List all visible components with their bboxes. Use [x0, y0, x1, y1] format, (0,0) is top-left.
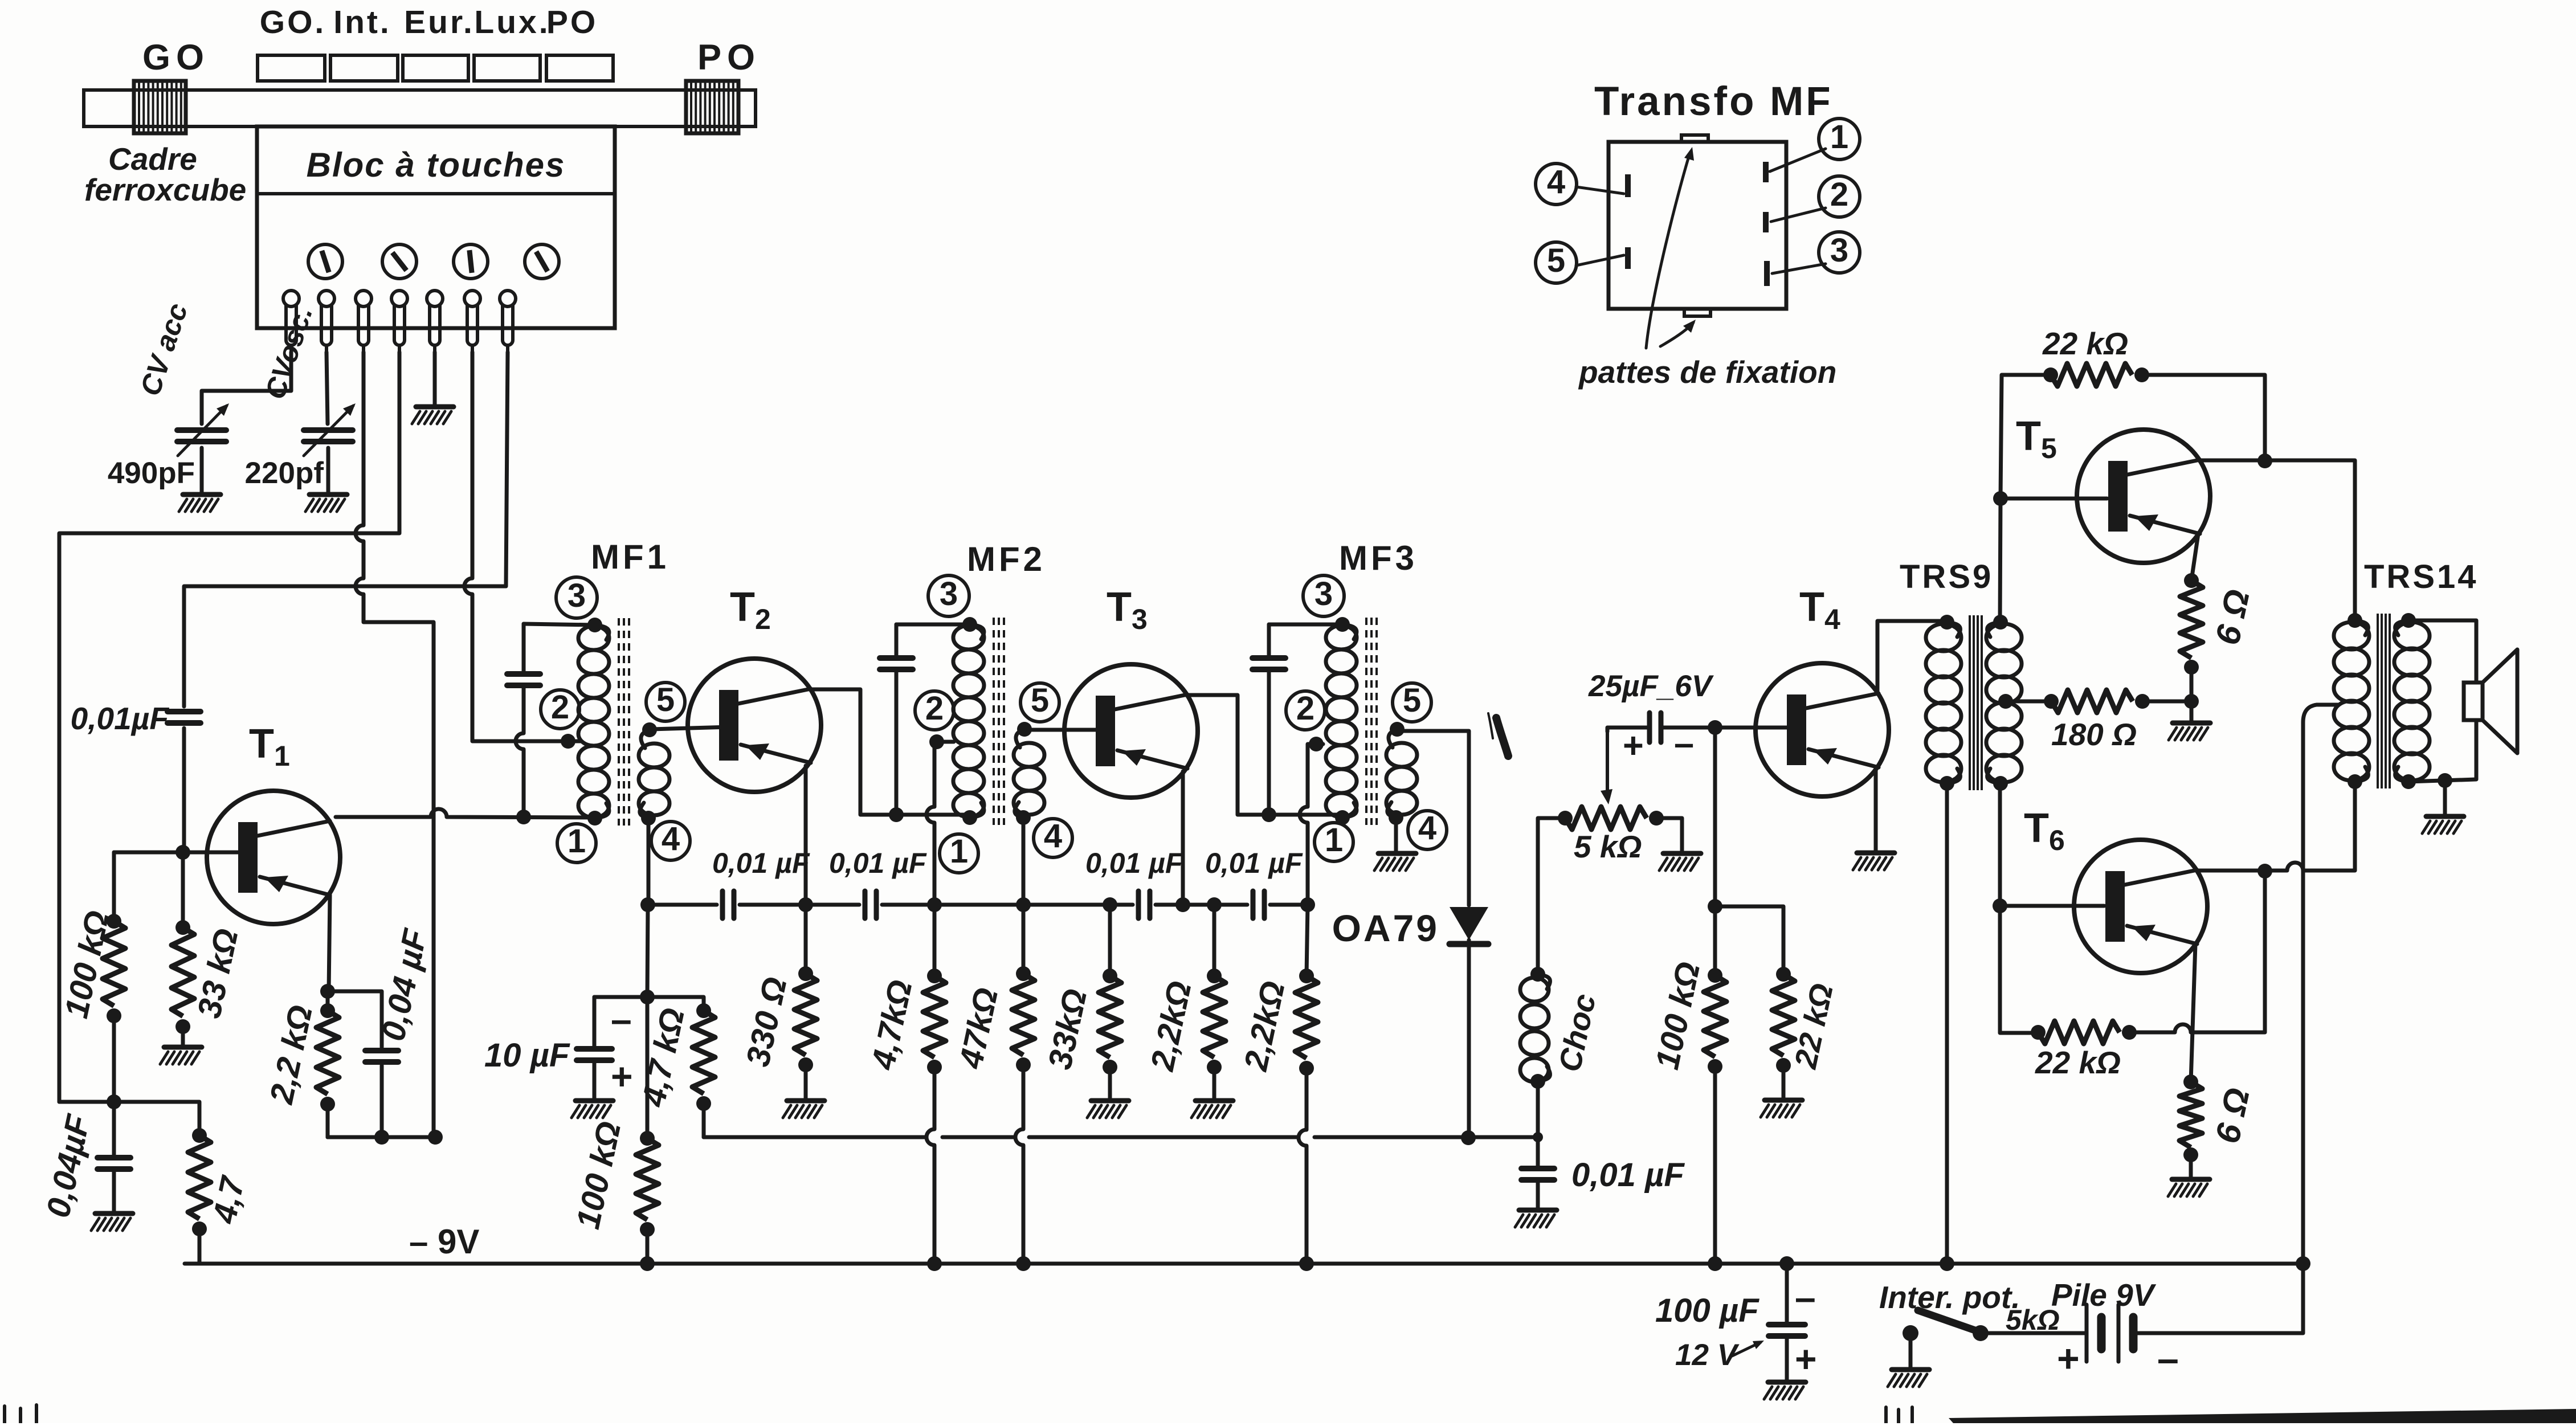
wire -9V rail	[185, 1262, 2303, 1266]
wire T1 collector to MF1	[336, 809, 595, 818]
wire T3 collector to MF3	[1186, 695, 1340, 815]
svg-text:22 kΩ: 22 kΩ	[2042, 326, 2128, 361]
svg-text:MF1: MF1	[591, 538, 669, 576]
svg-text:T1: T1	[249, 721, 290, 772]
potentiometer 5kohm	[1558, 807, 1664, 830]
svg-text:100 kΩ: 100 kΩ	[569, 1118, 628, 1232]
capacitor MF3 tuning	[1252, 658, 1285, 669]
svg-text:0,01 µF: 0,01 µF	[1205, 847, 1303, 879]
bloc terminal pin 1	[283, 291, 299, 353]
wire MF3 pin3 to cap	[1269, 623, 1342, 627]
junction rail at 47k	[1016, 1256, 1031, 1271]
variable capacitor CVacc 490pF	[177, 403, 229, 456]
junction MF1 tap wire	[561, 734, 575, 749]
svg-text:6 Ω: 6 Ω	[2208, 1085, 2257, 1147]
wire T3 emitter	[1181, 771, 1185, 905]
wire 10uF to ground	[593, 1063, 597, 1100]
ground (speaker)	[2422, 816, 2464, 833]
svg-text:5: 5	[1403, 682, 1421, 719]
wire T2 emitter	[804, 766, 808, 905]
key button PO	[546, 55, 613, 81]
junction osc feedback at emitter bus	[428, 1130, 443, 1145]
junction AGC node	[107, 1094, 121, 1109]
wire pin7 to wire2	[184, 352, 508, 706]
svg-text:47kΩ: 47kΩ	[952, 984, 1005, 1072]
circled 1 (MF2)	[940, 833, 978, 873]
resistor 33kohm (T1 base lower)	[172, 920, 194, 1034]
svg-text:PO: PO	[697, 38, 761, 77]
Transfo MF pin 3	[1764, 261, 1770, 286]
wire T5 emitter	[2191, 534, 2198, 581]
Transfo MF pin 2	[1763, 212, 1769, 232]
wire MF3 cap line	[1267, 624, 1271, 815]
junction row at 2,2k a	[1207, 897, 1222, 912]
svg-text:CVosc.: CVosc.	[259, 303, 319, 403]
wire 4,7k to AGC line	[702, 1104, 706, 1137]
key button Eur	[403, 55, 468, 81]
capacitor 0,01uF (detector filter)	[1521, 1168, 1554, 1180]
wire 33k to base	[181, 852, 185, 927]
wire det cap	[1536, 1137, 1540, 1209]
resistor 22kohm (T6 feedback)	[2031, 1021, 2137, 1044]
coil PO on ferrite rod	[686, 81, 738, 133]
svg-text:Inter. pot.: Inter. pot.	[1879, 1280, 2020, 1315]
ground (6ohm T5)	[2169, 723, 2210, 740]
wire base to 100k	[112, 852, 116, 921]
wire T2 emitter to 330	[804, 905, 808, 974]
key button Int	[330, 55, 398, 81]
circled 2 (MF3)	[1286, 690, 1325, 730]
transistor T4	[1756, 663, 1889, 796]
wire choc top	[1538, 818, 1565, 974]
junction row at MF2 tap	[927, 897, 942, 912]
junction T5 collector node	[2257, 453, 2272, 468]
svg-text:2: 2	[551, 689, 569, 726]
ground (33k T3)	[1087, 1101, 1129, 1118]
wire 100uF top	[1785, 1264, 1789, 1323]
wire T1 emitter	[329, 895, 330, 991]
wire MF1 pin4 to node A	[647, 905, 648, 997]
resistor 100kohm (T1 base upper)	[103, 914, 125, 1023]
wire node to ground	[2190, 701, 2194, 722]
ferrite rod antenna bar	[84, 90, 756, 126]
wire 6ohm T6 ground	[2189, 1155, 2193, 1178]
ground (pin5)	[412, 407, 454, 424]
svg-text:4: 4	[1418, 810, 1436, 847]
svg-text:22 kΩ: 22 kΩ	[1787, 980, 1840, 1072]
ground (100uF)	[1764, 1382, 1806, 1399]
capacitor 0,04uF (AGC filter)	[97, 1158, 130, 1169]
circled 2 (MF1)	[541, 689, 579, 729]
transistor T2	[688, 659, 821, 792]
arrow to bottom tab	[1660, 320, 1696, 346]
svg-text:4: 4	[662, 820, 680, 857]
scan marks bottom middle	[1886, 1407, 1912, 1423]
trimmer screw 3 in bloc	[454, 244, 488, 279]
junction MF3 cap at pin1 wire	[1262, 807, 1276, 822]
wire pin3 to emitter node (osc feedback)	[356, 352, 434, 1136]
circled 1 (Transfo MF)	[1819, 119, 1860, 160]
capacitor 25uF 6V	[1650, 713, 1661, 742]
svg-text:22 kΩ: 22 kΩ	[2035, 1045, 2121, 1080]
transistor T5	[2077, 430, 2210, 563]
svg-text:4,7 kΩ: 4,7 kΩ	[635, 1005, 692, 1110]
junction rail at 100k bias	[640, 1256, 655, 1271]
svg-text:TRS9: TRS9	[1900, 558, 1993, 595]
wire cap to T1 base junction	[182, 728, 186, 852]
circled 4 (MF2)	[1034, 818, 1072, 857]
wire 0,04uF down	[380, 1065, 384, 1137]
capacitor 0,01uF row 3	[1138, 891, 1150, 918]
wire T2 base	[650, 727, 729, 729]
svg-text:1: 1	[950, 833, 968, 870]
ground (CVosc)	[305, 495, 347, 512]
junction MF3 tap	[1309, 737, 1324, 751]
scan marks bottom left	[5, 1405, 36, 1423]
svg-text:+: +	[1795, 1338, 1817, 1380]
svg-text:GO: GO	[142, 38, 210, 77]
svg-text:4: 4	[1547, 164, 1565, 201]
svg-text:0,01 µF: 0,01 µF	[712, 847, 810, 879]
wire TRS9 secondary bottom	[2000, 783, 2104, 1033]
svg-text:T6: T6	[2024, 806, 2065, 856]
wire 22k to ground	[1782, 1065, 1786, 1099]
wire TRS9 primary bottom to rail	[1945, 783, 1949, 1264]
wire MF3 tap down	[1300, 744, 1323, 905]
junction row at T2 emitter	[798, 897, 813, 912]
junction row at MF1 pin4	[640, 897, 655, 912]
junction rail at 100k T4	[1708, 1256, 1722, 1271]
svg-text:0,01µF: 0,01µF	[71, 701, 170, 736]
svg-text:33kΩ: 33kΩ	[1041, 986, 1094, 1072]
resistor 2,2kohm (T1 emitter)	[316, 1003, 339, 1112]
wire pot right to ground	[1656, 818, 1682, 852]
ground (AGC cap)	[91, 1213, 133, 1231]
junction row at MF2 pin4	[1016, 897, 1031, 912]
circled 4 (MF1)	[651, 820, 690, 860]
svg-text:3: 3	[940, 575, 958, 612]
key button Lux	[474, 55, 540, 81]
bloc terminal pin 3	[356, 291, 372, 353]
capacitor 0,01uF (T1 base input)	[168, 712, 201, 723]
leader line pin2	[1771, 208, 1826, 222]
junction divider mid	[1708, 899, 1722, 914]
svg-text:2: 2	[1830, 176, 1848, 213]
svg-text:–: –	[1795, 1276, 1816, 1318]
svg-text:Bloc à touches: Bloc à touches	[307, 146, 566, 184]
wire T4 divider vertical	[1713, 728, 1717, 975]
wire 100k to rail	[646, 1229, 650, 1264]
resistor 100kohm (bias)	[636, 1131, 659, 1237]
pot wiper arrow	[1601, 732, 1612, 804]
wire MF2 pin3 to cap	[896, 623, 970, 627]
output transformer TRS14	[2334, 613, 2430, 789]
svg-text:2,2kΩ: 2,2kΩ	[1144, 978, 1199, 1074]
wire 22k T6 to collector node	[2129, 871, 2265, 1032]
wire T4 emitter	[1874, 769, 1878, 852]
wire CVacc to ground	[200, 448, 204, 493]
svg-text:ferroxcube: ferroxcube	[84, 172, 246, 207]
svg-text:+: +	[611, 1055, 633, 1097]
resistor 4,7kohm (MF2 tap)	[923, 969, 946, 1074]
svg-text:220pf: 220pf	[245, 456, 324, 490]
resistor 180ohm	[2044, 690, 2150, 713]
svg-text:OA79: OA79	[1332, 907, 1439, 949]
junction choc/cap/AGC	[1533, 1132, 1543, 1142]
svg-text:3: 3	[1314, 575, 1333, 612]
wire 2,2k to bottom	[326, 1104, 330, 1137]
wire wiper to 25uF	[1607, 728, 1648, 732]
wire MF2 cap line	[895, 624, 899, 815]
Transfo MF bottom tab	[1684, 309, 1710, 316]
junction 180/6 node	[2184, 694, 2199, 709]
svg-text:1: 1	[1325, 822, 1343, 859]
circled 1 (MF1)	[557, 823, 596, 863]
capacitor 0,04uF (T1 emitter bypass)	[365, 1051, 398, 1062]
svg-text:12 V: 12 V	[1675, 1338, 1740, 1372]
svg-text:T5: T5	[2016, 414, 2057, 464]
capacitor 0,01uF row 1	[722, 891, 734, 918]
transistor T6	[2074, 840, 2207, 973]
ground (T4 emitter)	[1853, 853, 1895, 870]
key button GO	[258, 55, 325, 81]
circled 5 (MF3)	[1393, 682, 1431, 722]
resistor 33kohm (T3)	[1099, 969, 1121, 1074]
capacitor MF1 tuning	[507, 674, 540, 685]
svg-text:4,7kΩ: 4,7kΩ	[864, 976, 920, 1073]
Transfo MF body box	[1609, 142, 1786, 309]
wire choc to junction	[1536, 1081, 1540, 1137]
svg-text:T4: T4	[1799, 585, 1840, 635]
resistor 2,2kohm (b)	[1295, 969, 1318, 1076]
junction TRS14 tap at rail	[2296, 1256, 2310, 1271]
capacitor 0,01uF row 4	[1253, 891, 1264, 918]
wire 2,2k a ground	[1213, 1067, 1216, 1100]
svg-text:0,04 µF: 0,04 µF	[374, 925, 434, 1044]
junction rail at 100uF	[1779, 1256, 1794, 1271]
junction 0,04uF bottom	[374, 1130, 389, 1145]
wire 22k T5 to collector node	[2142, 375, 2265, 460]
svg-text:1: 1	[568, 823, 586, 860]
wire MF3 pin5 to diode	[1399, 731, 1469, 905]
ground (10uF)	[571, 1101, 613, 1118]
svg-text:100 µF: 100 µF	[1655, 1292, 1759, 1329]
ground (2,2k a)	[1191, 1101, 1233, 1118]
ground (det cap)	[1515, 1210, 1557, 1227]
trimmer screw 4 in bloc	[525, 244, 559, 279]
svg-text:490pF: 490pF	[108, 456, 195, 490]
wire TRS9 center tap	[2007, 700, 2051, 704]
svg-text:+: +	[1623, 726, 1644, 766]
junction T6 collector node	[2257, 864, 2272, 879]
wire speaker bottom	[2408, 720, 2476, 782]
circled 3 (MF1)	[556, 577, 597, 618]
capacitor 10uF electrolytic	[577, 1049, 612, 1060]
ground (22k T4)	[1761, 1100, 1802, 1117]
svg-text:–: –	[2157, 1337, 2179, 1380]
svg-text:5: 5	[1031, 682, 1049, 719]
driver transformer TRS9	[1926, 615, 2022, 791]
label Cadre ferroxcube	[84, 141, 246, 207]
Transfo MF top tab	[1681, 135, 1708, 142]
IF transformer MF3	[1326, 617, 1417, 825]
junction TRS9 tap	[1998, 694, 2013, 709]
svg-text:Transfo MF: Transfo MF	[1594, 79, 1833, 124]
svg-text:2: 2	[925, 690, 944, 727]
wire speaker ground	[2443, 781, 2447, 815]
wire pin2 to CVosc	[326, 352, 328, 424]
junction T1 emitter node	[320, 984, 335, 999]
trimmer screw 1 in bloc	[308, 244, 342, 279]
svg-text:10 µF: 10 µF	[484, 1037, 570, 1074]
junction MF1 cap at collector wire	[516, 810, 531, 824]
resistor 100kohm (T4 divider)	[1704, 968, 1726, 1074]
svg-text:MF2: MF2	[967, 540, 1046, 578]
IF transformer MF2	[953, 617, 1044, 825]
circled 1 (MF3)	[1314, 822, 1353, 861]
wire MF2 pin4 chain	[1022, 905, 1026, 974]
circled 3 (MF3)	[1303, 575, 1344, 616]
junction T6 base	[1993, 898, 2007, 913]
svg-text:0,04µF: 0,04µF	[39, 1111, 97, 1221]
wire 33k row down	[1108, 905, 1112, 976]
resistor 22kohm (T4 divider)	[1772, 967, 1795, 1073]
svg-text:TRS14: TRS14	[2364, 558, 2479, 595]
wire 180 to node	[2142, 700, 2191, 704]
svg-text:5 kΩ: 5 kΩ	[1574, 829, 1642, 864]
wire 4,7k MF2 to rail	[926, 1067, 934, 1264]
svg-text:330 Ω: 330 Ω	[739, 974, 794, 1069]
wire MF2 tap down	[926, 742, 954, 905]
label 12V	[1675, 1338, 1764, 1372]
circled 4 (MF3)	[1408, 810, 1447, 849]
wire node A to 10uF	[594, 995, 647, 999]
ground (330)	[783, 1101, 824, 1118]
loudspeaker	[2464, 649, 2517, 753]
svg-text:CV acc: CV acc	[134, 299, 194, 399]
transistor T3	[1064, 664, 1198, 798]
capacitor MF2 tuning	[880, 658, 913, 669]
svg-text:Pile 9V: Pile 9V	[2051, 1277, 2157, 1313]
wire switch to battery	[1981, 1331, 2084, 1335]
wire TRS9 secondary top to T5 base	[2000, 375, 2107, 622]
wire 2,2k a down	[1213, 905, 1216, 976]
wire pin4 horizontal (wire1)	[59, 352, 399, 1102]
svg-text:pattes de fixation: pattes de fixation	[1578, 354, 1836, 390]
wire T2 collector to MF2	[810, 689, 967, 815]
svg-text:6 Ω: 6 Ω	[2208, 586, 2257, 648]
svg-text:GO.: GO.	[260, 4, 326, 40]
wire coupling row	[648, 903, 1308, 907]
resistor 6ohm (T6)	[2179, 1074, 2202, 1162]
capacitor 0,01uF row 2	[865, 891, 876, 918]
bloc terminal pin 7	[500, 291, 516, 353]
ground (33k T1)	[160, 1047, 202, 1064]
ground (CVacc)	[179, 495, 221, 512]
transistor T1	[207, 791, 340, 924]
diode OA79	[1450, 907, 1488, 948]
capacitor 100uF electrolytic	[1769, 1325, 1805, 1336]
svg-text:+: +	[2057, 1337, 2080, 1380]
svg-text:MF3: MF3	[1339, 539, 1418, 577]
wire 2,2k b down	[1307, 905, 1308, 976]
bloc terminal pin 2	[319, 291, 334, 353]
wire 33k to ground	[181, 1027, 185, 1046]
wire node A down to 100k	[646, 997, 650, 1138]
wire 2,2k b to rail	[1299, 1068, 1307, 1264]
svg-text:PO: PO	[546, 4, 598, 40]
leader line pin3	[1772, 264, 1826, 273]
junction rail at 2,2k b	[1299, 1256, 1314, 1271]
svg-text:100 kΩ: 100 kΩ	[1648, 959, 1707, 1073]
wire T6 collector	[2197, 784, 2355, 871]
junction MF2 cap at pin1 wire	[889, 807, 904, 822]
circled 2 (Transfo MF)	[1819, 176, 1860, 217]
junction rail at 4,7k MF2	[927, 1256, 942, 1271]
wire MF2 pin4 down	[1022, 818, 1026, 905]
wire 25uF to T4 base	[1662, 726, 1789, 730]
bloc terminal pin 6	[464, 291, 480, 353]
variable capacitor CVosc 220pF	[304, 403, 356, 456]
junction T4 base divider	[1708, 720, 1722, 735]
wire T4 collector	[1877, 621, 1945, 692]
ground (MF3 pin4)	[1374, 853, 1416, 871]
circled 3 (Transfo MF)	[1819, 232, 1860, 273]
wire AGC line	[704, 1135, 1538, 1139]
IF transformer MF1	[578, 618, 669, 826]
svg-text:0,01 µF: 0,01 µF	[1571, 1157, 1685, 1194]
circled 3 (MF2)	[928, 575, 969, 616]
svg-text:3: 3	[568, 577, 586, 614]
wire AGC node to 0,04uF2	[59, 1102, 199, 1135]
resistor 4,7kohm (T1 bias)	[188, 1128, 211, 1236]
wire 10uF top	[593, 997, 597, 1046]
junction row at T3 emitter	[1175, 897, 1190, 912]
junction rail at TRS9	[1940, 1256, 1954, 1271]
svg-text:3: 3	[1830, 232, 1848, 269]
wire MF1 pin3 to cap	[524, 624, 595, 625]
resistor 330ohm (T2 emitter)	[794, 966, 817, 1072]
coil GO on ferrite rod	[134, 81, 186, 133]
svg-text:Choc: Choc	[1552, 991, 1602, 1074]
junction T1 base	[175, 845, 190, 860]
junction row at MF3 tap	[1300, 897, 1315, 912]
wire 4,7k to -9V rail	[198, 1229, 202, 1264]
junction T5 base	[1993, 491, 2008, 506]
resistor 47kohm (MF2 sec)	[1012, 966, 1035, 1072]
wire 100k T4 to rail	[1713, 1067, 1717, 1264]
scan ink blob artifact	[1488, 713, 1508, 756]
resistor 22kohm (T5 feedback)	[2043, 363, 2149, 386]
Transfo MF pin 4	[1625, 174, 1631, 197]
resistor 2,2kohm (a)	[1203, 969, 1226, 1074]
svg-text:180 Ω: 180 Ω	[2051, 717, 2137, 752]
wire emitter node to 0,04uF	[328, 991, 382, 1047]
svg-text:–: –	[611, 998, 632, 1040]
junction diode AGC	[1461, 1130, 1476, 1145]
wire MF3 pin4 ground	[1394, 818, 1398, 852]
wire 100k to AGC node	[112, 1016, 116, 1102]
wire divider to 22k	[1715, 906, 1783, 974]
bloc terminal pin 5	[427, 291, 443, 353]
wire MF2 tap chain resistor	[933, 905, 937, 976]
Transfo MF pin 5	[1625, 247, 1631, 269]
wire switch to ground	[1909, 1333, 1913, 1368]
wire AGC cap to ground	[112, 1102, 116, 1212]
wire pin6 to MF1 tap	[464, 352, 581, 741]
svg-text:2,2kΩ: 2,2kΩ	[1237, 978, 1292, 1074]
leader line pin1	[1770, 149, 1826, 171]
